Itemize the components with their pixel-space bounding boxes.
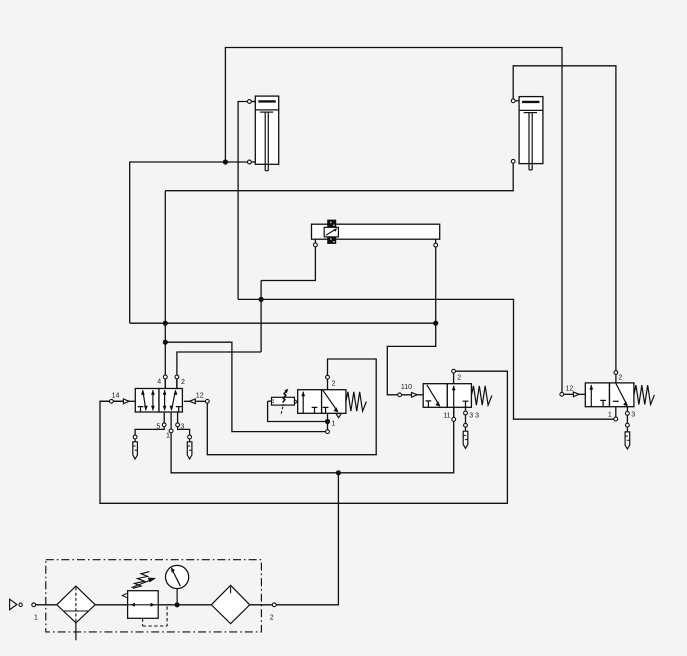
svg-text:11: 11	[443, 412, 450, 419]
valve V1 silencer at port 5	[133, 435, 137, 439]
node: junction lineB/rodless right	[433, 321, 438, 326]
svg-text:12: 12	[566, 386, 574, 393]
svg-text:5: 5	[156, 423, 160, 430]
svg-text:2: 2	[457, 375, 461, 382]
wire: valve V4 port3 stub	[626, 407, 628, 432]
svg-text:2: 2	[332, 381, 336, 388]
regulator adjustment spring arrow	[133, 572, 150, 589]
wire: valve V3 port3 stub	[465, 407, 467, 431]
right cylinder ports	[513, 100, 519, 102]
wire: line A to valve V4 port1	[238, 299, 616, 419]
valve V1 right box flow paths	[164, 390, 166, 410]
wire: supply riser from service unit	[276, 473, 339, 605]
valve V2 exhaust triangle	[336, 414, 341, 418]
main flow line through service unit	[36, 604, 57, 606]
svg-text:110: 110	[401, 384, 412, 391]
valve V3 pilot symbol	[412, 393, 418, 398]
valve V4 right box exhaust path	[616, 384, 627, 406]
svg-text:2: 2	[270, 614, 274, 621]
wire: right cylinder top port to valve V4 port2	[513, 66, 616, 383]
wire: rodless cylinder right port to valve V3 pilot	[387, 239, 435, 395]
regulator relief triangle	[122, 593, 127, 598]
wire: valve V1 port5 to silencer	[135, 412, 164, 435]
lubricator	[211, 585, 249, 623]
cylinder left (double acting, rod down)	[255, 96, 278, 164]
valve V3 port circles	[452, 369, 456, 373]
regulator feedback dashed line	[166, 606, 168, 626]
valve V3 3/2 pilot valve - body	[423, 384, 447, 408]
cylinder right (double acting, rod down)	[519, 97, 543, 164]
filter drain line	[75, 623, 77, 641]
wire: supply line S1 valve V1 port1 - valve V3 port1	[171, 407, 454, 473]
pressure gauge	[176, 589, 178, 605]
node: junction supply riser	[336, 470, 341, 475]
filter with water separator	[57, 586, 95, 623]
linear drive ports	[314, 243, 318, 247]
wire: right cylinder bottom port to riser	[165, 161, 513, 190]
service unit port 2	[272, 603, 276, 607]
wire: junction cross vertical at x261	[260, 281, 262, 353]
valve V4 3/2 pilot valve - body	[585, 383, 609, 407]
svg-text:4: 4	[157, 379, 161, 386]
wire: rodless cylinder left port	[261, 239, 315, 280]
valve V4 silencer at port 3	[625, 432, 630, 449]
svg-text:3 3: 3 3	[469, 412, 479, 419]
svg-text:12: 12	[196, 393, 204, 400]
valve V2 3/2 pressure sequence valve - body	[298, 390, 322, 414]
linear drive (rodless cylinder) body	[312, 224, 440, 239]
svg-text:1: 1	[331, 421, 335, 428]
valve V1 silencer at port 3	[188, 435, 192, 439]
wire: branch to sequence valve V2 port1	[165, 342, 327, 431]
valve V1 left box flow paths	[143, 390, 146, 410]
valve V2 port circles	[326, 375, 330, 379]
wire: valve V4 port1 stub with internal block	[615, 401, 617, 419]
service unit port 1	[32, 603, 36, 607]
wire: left cylinder top port	[238, 102, 255, 300]
wire: valve V1 port3 to silencer	[178, 412, 190, 435]
valve V3 silencer at port 3	[463, 431, 468, 448]
service unit frame (dash-dot)	[46, 560, 262, 632]
wire: valve V3 port2 to valve V1 pilot 14	[453, 371, 455, 384]
svg-text:2: 2	[618, 374, 622, 381]
valve V3 left box blocked port	[426, 400, 432, 402]
valve V2 right box exhaust path	[323, 390, 338, 411]
svg-text:2: 2	[181, 379, 185, 386]
node: junction left cyl bottom	[223, 159, 228, 164]
pressure regulator	[128, 591, 159, 619]
valve V4 left box flow path	[590, 385, 592, 407]
valve V4 right box blocked port	[613, 400, 619, 402]
valve V1 5/2 double pneumatic pilot - body	[135, 389, 159, 413]
valve V1 left box blocked port	[138, 406, 144, 408]
linear drive slide	[327, 220, 336, 228]
valve V3 right box flow path	[453, 386, 455, 407]
valve V2 left box blocked port	[312, 406, 318, 408]
wire: valve V2 pilot feedback from port1	[327, 413, 329, 431]
valve V1 right box blocked port	[176, 406, 182, 408]
left cylinder ports	[249, 101, 255, 103]
valve V2 return spring	[346, 392, 367, 411]
valve V2 right box blocked port	[323, 406, 329, 408]
compressed air source	[10, 599, 17, 610]
valve V4 left box blocked port	[600, 399, 606, 401]
node: junction line A cross	[259, 297, 264, 302]
valve V1 pilot 12 symbol	[190, 399, 196, 404]
wire: valve V1 port4 net top loop (left cyl bottom to valve V4 pilot 12)	[225, 48, 562, 393]
wire: valve V1 port 4 riser	[164, 191, 166, 389]
svg-text:3: 3	[180, 423, 184, 430]
node: junction riser/lineB	[163, 321, 168, 326]
valve V2 pilot cylinder box	[272, 397, 295, 405]
valve V4 return spring	[634, 385, 655, 404]
valve V1 pilot 14 symbol	[113, 400, 123, 402]
valve V3 right box blocked port	[463, 400, 469, 402]
svg-text:3: 3	[631, 412, 635, 419]
valve V2 pilot triangle	[295, 400, 298, 404]
valve V3 return spring	[471, 386, 492, 405]
node: junction riser/branch342	[163, 340, 168, 345]
wire: valve V1 port 2 riser	[177, 352, 261, 389]
wire: left cylinder bottom port branch	[130, 162, 256, 323]
valve V1 port stubs and circles	[164, 379, 166, 389]
wire: valve V2 port2 to valve V1 pilot 12	[207, 359, 376, 455]
svg-text:1: 1	[166, 432, 170, 439]
valve V2 adjustment arrow with spring	[281, 404, 283, 414]
valve V4 port circles	[614, 371, 618, 375]
wire: valve V3 port1 stub	[453, 407, 455, 419]
valve V2 left box flow path	[302, 392, 304, 414]
node: junction V2 pilot tap	[325, 419, 330, 424]
wire: net line B horizontal	[130, 322, 436, 324]
svg-text:14: 14	[112, 393, 120, 400]
valve V4 pilot symbol	[564, 393, 574, 395]
svg-text:1: 1	[34, 614, 38, 621]
valve V3 left box exhaust path	[427, 385, 440, 406]
svg-text:1: 1	[608, 412, 612, 419]
wire: valve V1 pilot 14 lead	[100, 400, 111, 402]
